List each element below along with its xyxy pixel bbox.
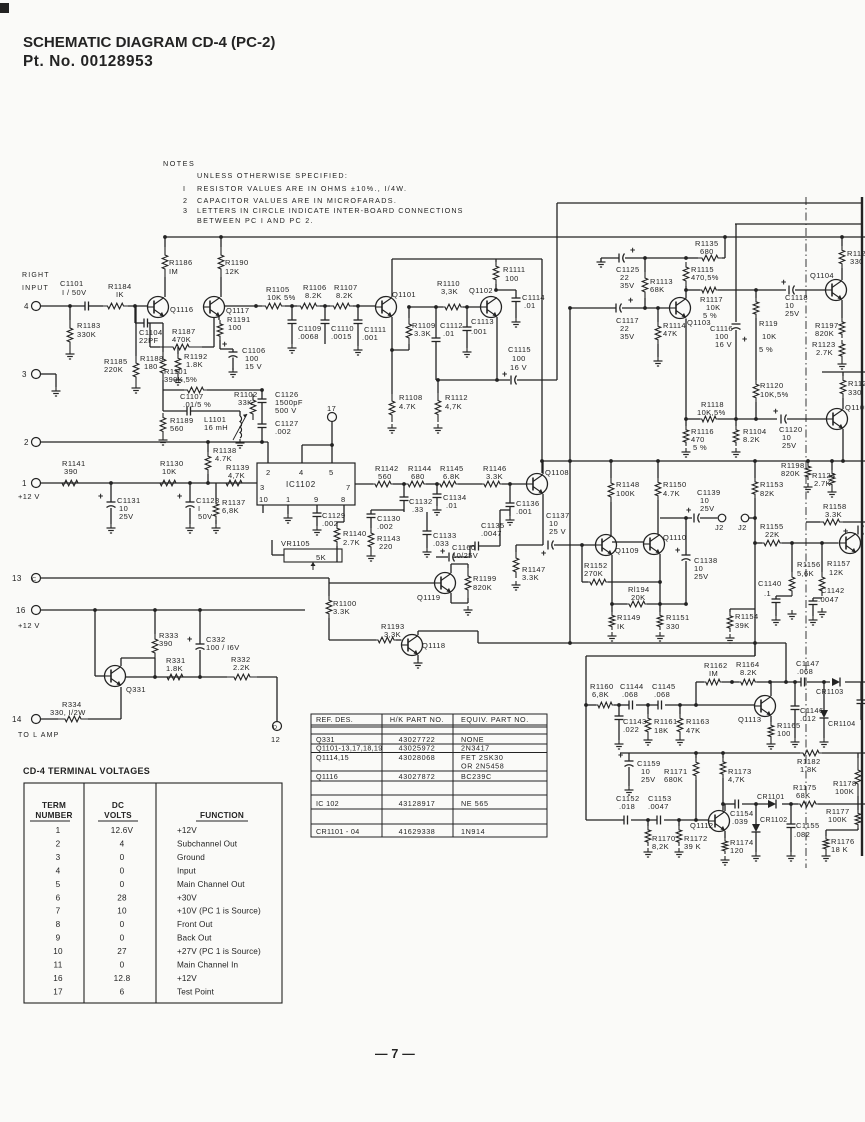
junction [68,304,72,308]
wire emitter [391,317,393,350]
resistor R1108 [391,350,393,394]
ground [515,318,517,322]
junction [198,675,202,679]
svg-text:180: 180 [144,362,158,371]
svg-text:DC: DC [112,801,124,810]
resistor R1192 [177,347,179,354]
svg-text:IK: IK [617,622,625,631]
junction [206,440,210,444]
junction [658,602,662,606]
junction [754,802,758,806]
resistor R1143 [368,528,374,552]
wire Q331 collector [120,658,122,666]
svg-text:.001: .001 [471,327,487,336]
capacitor C1133 [426,512,428,531]
svg-text:J2: J2 [738,523,747,532]
svg-text:25V: 25V [119,512,134,521]
svg-text:Q331: Q331 [126,685,146,694]
svg-text:VR1105: VR1105 [281,539,310,548]
svg-text:3.3K: 3.3K [486,472,503,481]
ground [628,786,630,790]
svg-text:680: 680 [411,472,425,481]
ground [825,852,827,856]
wire Q1103 emitter down [685,319,687,420]
capacitor C1147 [800,678,802,687]
junction [436,378,440,382]
capacitor C1148 edge [860,682,862,700]
svg-text:R1190: R1190 [225,258,249,267]
svg-text:9: 9 [56,934,61,943]
junction [841,459,845,463]
svg-text:R1154: R1154 [735,612,759,621]
capacitor C1107 [162,390,164,411]
svg-text:12: 12 [271,735,280,744]
junction [133,304,137,308]
resistor R1184 [103,303,128,309]
resistor R1117 [686,289,700,291]
resistor R1124 [831,461,833,470]
junction [568,459,572,463]
ground [735,448,737,452]
svg-text:35V: 35V [620,281,635,290]
svg-text:Ground: Ground [177,853,205,862]
resistor R1142 [373,481,393,487]
svg-text:4: 4 [120,839,125,848]
svg-text:R1149: R1149 [617,613,641,622]
junction [793,680,797,684]
resistor R1182 [800,750,822,756]
ground [729,634,731,638]
op-amp IC1102 box [257,463,355,505]
svg-text:100K: 100K [616,489,635,498]
svg-text:.068: .068 [622,690,638,699]
svg-text:C: C [32,577,36,583]
transistor Q1102 [481,297,502,318]
wire pin1 down [287,505,289,514]
junction [323,304,327,308]
svg-text:8.2K: 8.2K [743,435,760,444]
svg-text:5 %: 5 % [703,311,717,320]
wire Q1108 collector [542,461,544,474]
transistor Q1104 [826,280,847,301]
svg-text:33K: 33K [238,398,253,407]
svg-text:+27V (PC 1 is Source): +27V (PC 1 is Source) [177,947,261,956]
svg-text:8.2K: 8.2K [740,668,757,677]
junction [830,459,834,463]
svg-text:10: 10 [259,495,268,504]
wire [371,509,404,511]
junction [646,818,650,822]
junction [646,703,650,707]
svg-text:50V: 50V [198,512,213,521]
capacitor C1136 [509,484,511,503]
junction [163,235,167,239]
svg-text:.01/5 %: .01/5 % [183,400,211,409]
svg-text:TERM: TERM [42,801,66,810]
capacitor C1155 [790,804,792,824]
wire rail y=656 [586,655,755,657]
wire Q1108 emitter down [542,494,544,545]
svg-text:CR1101 - 04: CR1101 - 04 [316,827,360,836]
junction [465,305,469,309]
junction [684,602,688,606]
junction [753,459,757,463]
svg-text:6.8K: 6.8K [443,472,460,481]
svg-text:.01: .01 [524,301,536,310]
inter-board dash-dot line [805,197,807,868]
ground [791,610,793,614]
resistor R1187 [150,346,160,348]
svg-text:R119: R119 [759,319,778,328]
svg-text:28: 28 [117,893,127,902]
capacitor C1117 polarized [570,307,616,309]
resistor R1122 [842,372,844,376]
svg-text:R1122: R1122 [848,379,865,388]
svg-text:9: 9 [314,495,319,504]
ground [239,439,241,443]
svg-text:R1161: R1161 [654,717,678,726]
svg-text:10K: 10K [762,332,777,341]
wire [162,323,164,352]
resistor R1105 [262,303,285,309]
svg-text:SCHEMATIC DIAGRAM CD-4 (PC-2): SCHEMATIC DIAGRAM CD-4 (PC-2) [23,34,275,51]
svg-text:5,6K: 5,6K [797,569,814,578]
wire pin4 up [301,445,303,463]
svg-text:.33: .33 [412,505,424,514]
resistor R1114 [657,308,659,322]
svg-text:18 K: 18 K [831,845,848,854]
resistor R1170 [647,820,649,826]
ground [841,360,843,364]
resistor R1165 [770,716,772,722]
resistor R1116 [685,419,687,426]
capacitor C1159 polarized [628,753,630,761]
junction [198,608,202,612]
svg-text:12K: 12K [829,568,844,577]
svg-text:+12V: +12V [177,974,197,983]
svg-text:FUNCTION: FUNCTION [200,811,244,820]
svg-text:IM: IM [709,669,718,678]
svg-text:5 %: 5 % [759,345,773,354]
connector J2 [741,514,749,522]
svg-text:+: + [98,491,103,501]
resistor R1173 [722,753,724,758]
ground [647,736,649,740]
svg-text:+: + [440,546,445,556]
svg-text:20K: 20K [631,593,646,602]
resistor R1104 [735,419,737,426]
wire Q1112 collector [724,804,726,811]
ground [232,368,234,372]
svg-text:25V: 25V [782,441,797,450]
svg-text:10: 10 [53,947,63,956]
svg-text:Q1102: Q1102 [469,286,493,295]
svg-text:.068: .068 [797,667,813,676]
junction [390,348,394,352]
junction [684,417,688,421]
junction [753,541,757,545]
svg-text:.01: .01 [443,329,455,338]
wire row y=307 [409,306,443,308]
svg-text:.018: .018 [619,802,635,811]
wire vertical x=570 [569,308,571,643]
svg-text:4,7K: 4,7K [445,402,462,411]
svg-text:25V: 25V [641,775,656,784]
svg-text:.1: .1 [764,589,771,598]
resistor R1135 [686,257,698,259]
ground [770,740,772,744]
svg-text:4: 4 [299,468,304,477]
capacitor C1128 polarized [189,483,191,502]
svg-text:NUMBER: NUMBER [35,811,72,820]
diode CR1104 [823,682,825,710]
resistor R332 [227,674,257,680]
svg-text:39K: 39K [735,621,750,630]
capacitor C1106 polarized [219,340,221,349]
wire [392,349,409,351]
wire [336,555,338,562]
svg-text:2: 2 [183,196,188,205]
svg-text:H/K PART NO.: H/K PART NO. [390,715,444,724]
svg-text:10K 5%: 10K 5% [267,293,296,302]
svg-text:14: 14 [12,715,22,724]
svg-text:LETTERS IN CIRCLE INDICATE IN: LETTERS IN CIRCLE INDICATE INTER-BOARD C… [197,206,464,215]
svg-text:15 V: 15 V [245,362,262,371]
svg-text:Back Out: Back Out [177,934,212,943]
wire [754,643,756,656]
wire terminal1 rail [41,482,258,484]
diode CR1103 [832,678,840,686]
svg-text:Main Channel In: Main Channel In [177,961,238,970]
capacitor C1118 polarized [788,286,790,295]
svg-text:VOLTS: VOLTS [104,811,132,820]
junction [684,256,688,260]
svg-text:IC1102: IC1102 [286,480,316,489]
ground [391,424,393,428]
svg-text:.022: .022 [623,725,639,734]
svg-text:43025972: 43025972 [399,744,436,753]
svg-text:Q1104: Q1104 [810,271,834,280]
potentiometer VR1105 [284,549,342,562]
svg-text:680K: 680K [664,775,683,784]
svg-text:680: 680 [700,247,714,256]
wire vertical x=586 down [585,656,587,820]
svg-text:+: + [686,505,691,515]
capacitor C332 polarized [199,610,201,644]
ground [69,350,71,354]
svg-text:R1111: R1111 [503,265,525,274]
svg-text:820K: 820K [473,583,492,592]
svg-text:1.8K: 1.8K [166,664,183,673]
svg-text:UNLESS OTHERWISE SPECIFIED:: UNLESS OTHERWISE SPECIFIED: [197,171,348,180]
capacitor C1116 polarized [732,323,741,325]
svg-text:100: 100 [512,354,526,363]
svg-text:R1140: R1140 [343,529,367,538]
svg-text:IM: IM [169,267,178,276]
wire [331,422,333,446]
svg-text:R1151: R1151 [666,613,690,622]
wire Q1109 emitter [611,555,613,604]
inductor L1101 variable [239,411,241,416]
svg-text:43028068: 43028068 [399,753,436,762]
svg-text:— 7 —: — 7 — [375,1047,415,1061]
svg-text:13: 13 [12,574,22,583]
junction [734,417,738,421]
svg-text:+30V: +30V [177,893,197,902]
ground [426,548,428,552]
ground [466,348,468,352]
svg-text:8: 8 [341,495,346,504]
svg-text:CAPACITOR VALUES ARE IN MICROF: CAPACITOR VALUES ARE IN MICROFARADS. [197,196,397,205]
resistor R1151 [659,604,661,612]
svg-text:+: + [781,277,786,287]
junction [789,802,793,806]
svg-text:12K: 12K [225,267,240,276]
resistor R1100 [328,578,330,596]
table ref-des part numbers [311,714,547,837]
svg-text:+10V (PC 1 is Source): +10V (PC 1 is Source) [177,907,261,916]
capacitor C1134 [436,484,438,494]
wire emitter to C1115 rail [496,317,498,380]
svg-text:CD-4 TERMINAL VOLTAGES: CD-4 TERMINAL VOLTAGES [23,766,150,776]
transistor Q1111 [840,533,861,554]
wire pin8 down [343,505,345,522]
transistor Q1118 [402,635,423,656]
svg-text:16 V: 16 V [510,363,527,372]
capacitor C1129 [316,505,318,513]
ground [794,738,796,742]
capacitor C1142 [812,598,814,601]
svg-text:Q1108: Q1108 [545,468,569,477]
svg-text:Q1119: Q1119 [417,593,440,602]
resistor R1174 [724,831,726,838]
svg-text:Q1114,15: Q1114,15 [316,753,349,762]
wire [755,318,757,380]
ground [357,346,359,350]
capacitor C1104 [134,306,136,323]
junction [643,256,647,260]
junction [822,680,826,684]
svg-text:Test Point: Test Point [177,987,215,996]
wire Q1118 collector [417,631,419,635]
junction [568,306,572,310]
junction [694,818,698,822]
svg-text:3: 3 [183,206,188,215]
svg-text:2.7K: 2.7K [814,479,831,488]
svg-text:25 V: 25 V [549,527,566,536]
resistor R334 [41,718,59,720]
resistor R1111 [495,259,497,262]
resistor R1186 [164,237,166,247]
wire Q1101 collector feed x=542 [541,259,543,473]
junction [508,482,512,486]
junction [109,481,113,485]
svg-text:Q1113: Q1113 [738,715,761,724]
svg-text:2.2K: 2.2K [233,663,250,672]
svg-text:.01: .01 [446,501,458,510]
ground [110,524,112,528]
junction [684,516,688,520]
resistor R1190 [220,237,222,247]
svg-text:470,5%: 470,5% [691,273,719,282]
svg-text:220K: 220K [104,365,123,374]
junction [494,288,498,292]
wire vertical x=557 from top rail [556,203,558,380]
ground [515,581,517,585]
resistor R1139 [222,480,246,486]
svg-text:330: 330 [848,388,862,397]
svg-text:TO L AMP: TO L AMP [18,732,60,739]
junction [820,541,824,545]
ground [287,514,289,518]
svg-text:.039: .039 [732,817,748,826]
junction [153,675,157,679]
svg-text:6: 6 [120,987,125,996]
junction [206,481,210,485]
svg-text:Q1116: Q1116 [170,305,193,314]
resistor R1147 [516,544,543,546]
wire to Q1116 base [128,305,148,307]
svg-text:Q1101-13,17,18,19: Q1101-13,17,18,19 [316,744,383,753]
svg-text:D: D [273,725,277,731]
resistor R1110 [443,304,463,310]
resistor R1199 [467,564,469,568]
svg-text:+12 V: +12 V [18,492,40,501]
resistor R1115 [683,262,689,286]
wire input to C1101 [41,305,86,307]
wire bus y=461 [542,460,865,462]
wire rail y=753 [620,752,800,754]
svg-text:2: 2 [24,438,29,447]
svg-text:.068: .068 [654,690,670,699]
svg-text:BETWEEN PC I AND PC 2.: BETWEEN PC I AND PC 2. [197,216,314,225]
resistor R1191 [218,317,220,320]
ground [436,506,438,510]
svg-text:+: + [177,491,182,501]
wire collector [685,290,687,299]
svg-text:10K,5%: 10K,5% [697,408,726,417]
svg-text:820K: 820K [815,329,834,338]
svg-text:Q1117: Q1117 [226,306,249,315]
svg-text:7: 7 [56,907,61,916]
svg-text:.082: .082 [794,830,810,839]
svg-text:5 %: 5 % [693,443,707,452]
svg-text:270K: 270K [584,569,603,578]
svg-text:10K,5%: 10K,5% [760,390,789,399]
ground [823,738,825,742]
svg-text:3,3K: 3,3K [384,630,401,639]
svg-text:C1155: C1155 [796,821,820,830]
svg-text:330, I/2W: 330, I/2W [50,708,86,717]
junction [677,818,681,822]
ground [316,526,318,530]
svg-text:0: 0 [120,853,125,862]
svg-text:R1163: R1163 [686,717,710,726]
junction [656,306,660,310]
svg-text:R1183: R1183 [77,321,101,330]
resistor R1157 [821,543,823,572]
ground [417,659,419,663]
resistor R1138 [207,442,209,452]
wire pin7 row [355,483,373,485]
resistor R1152 [581,545,583,582]
wire main top bus y=237 [165,236,865,238]
svg-text:1: 1 [286,495,291,504]
table terminal voltages box [24,783,282,1003]
svg-text:I: I [183,184,186,193]
svg-text:22K: 22K [765,530,780,539]
wire [89,305,104,307]
